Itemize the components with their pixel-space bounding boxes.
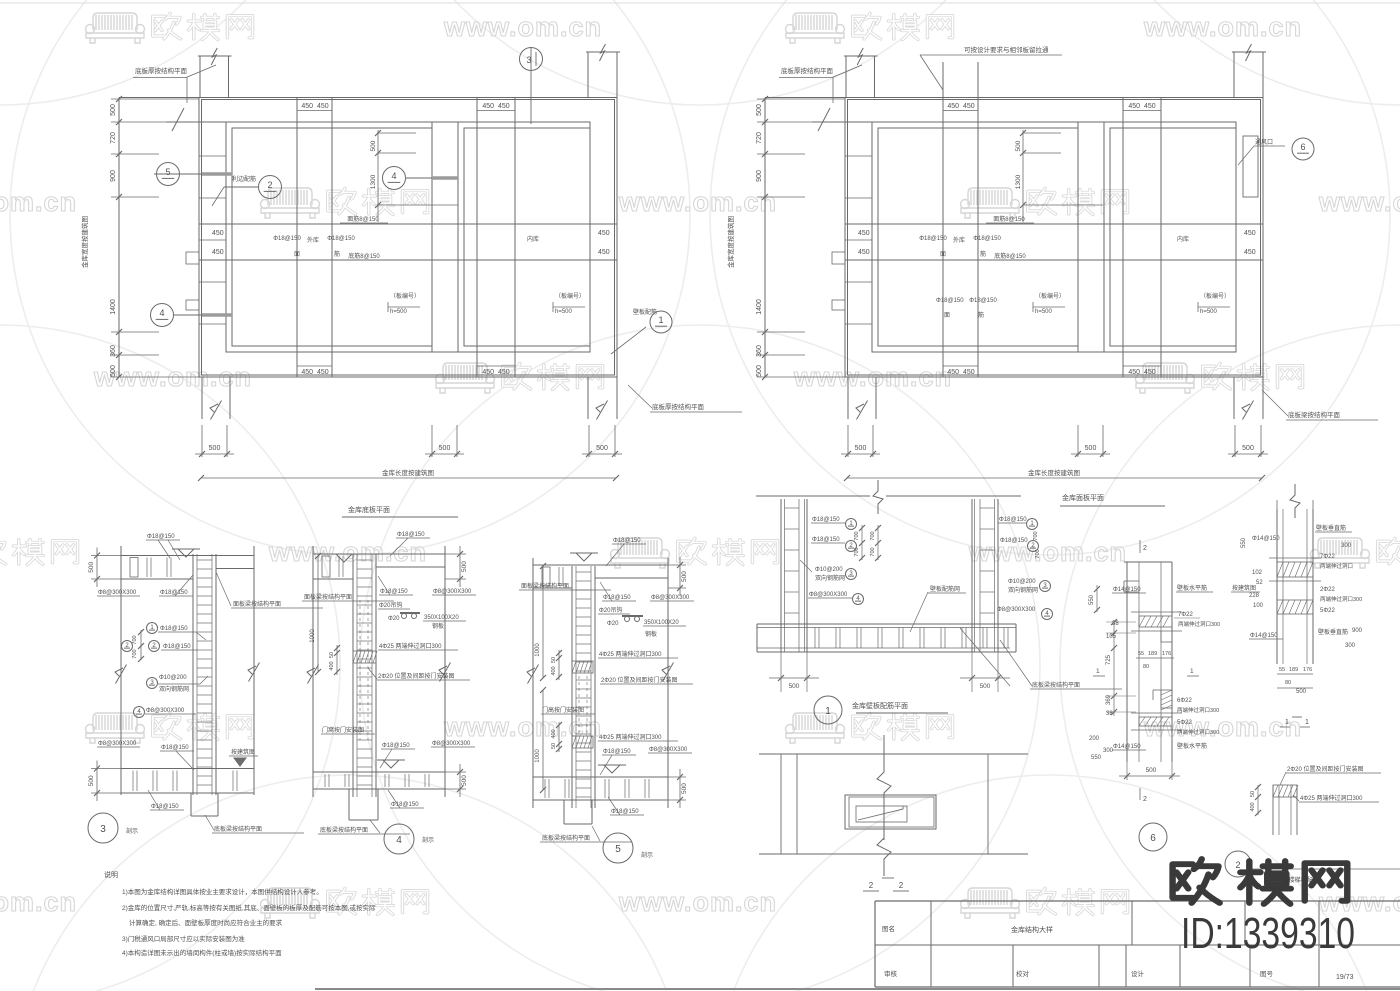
section 3 top slab: [121, 555, 254, 557]
svg-text:筋: 筋: [334, 250, 340, 258]
svg-text:金库结构大样: 金库结构大样: [1011, 925, 1053, 934]
svg-text:双向钢筋网: 双向钢筋网: [1008, 586, 1038, 594]
svg-text:壁板垂直筋: 壁板垂直筋: [1318, 628, 1348, 636]
svg-text:两端伸过洞口300: 两端伸过洞口300: [1177, 706, 1219, 714]
svg-text:底板厚按结构平面: 底板厚按结构平面: [135, 66, 188, 75]
detail 1-1 top break: [1276, 500, 1278, 509]
title block table: [875, 900, 1400, 902]
svg-text:1)本图为金库结构详图具体按业主要求设计，本图供结构设计人参: 1)本图为金库结构详图具体按业主要求设计，本图供结构设计人参考。: [122, 887, 323, 896]
svg-text:壁板水平筋: 壁板水平筋: [1177, 584, 1207, 592]
svg-text:2Φ20 位置及间距按门安装图: 2Φ20 位置及间距按门安装图: [378, 672, 454, 680]
svg-text:500: 500: [1242, 445, 1254, 452]
svg-text:Φ18@150: Φ18@150: [163, 644, 191, 650]
svg-text:400: 400: [551, 729, 557, 738]
svg-text:Φ18@150: Φ18@150: [936, 298, 964, 304]
svg-text:审核: 审核: [884, 969, 898, 978]
plan B right room wall: [1110, 128, 1236, 346]
svg-text:4: 4: [391, 171, 396, 181]
svg-text:6: 6: [1150, 833, 1156, 844]
svg-text:6: 6: [1300, 142, 1305, 152]
svg-text:面板梁按结构平面: 面板梁按结构平面: [304, 593, 352, 601]
svg-text:Φ20吊钩: Φ20吊钩: [379, 601, 402, 609]
svg-text:Φ18@150: Φ18@150: [397, 532, 425, 538]
section 3 rebar callout 4: [134, 707, 145, 718]
svg-text:450 450: 450 450: [1128, 369, 1155, 376]
svg-text:底板厚按结构平面: 底板厚按结构平面: [652, 402, 705, 411]
svg-text:设计: 设计: [1131, 969, 1145, 978]
section 3 rebar callout 1: [147, 623, 158, 634]
section 5 bottom slab: [533, 776, 668, 778]
svg-text:102: 102: [1252, 570, 1263, 576]
svg-text:Φ8@300X300: Φ8@300X300: [146, 708, 185, 714]
svg-text:筋: 筋: [978, 311, 984, 319]
section 3 break mark right: [249, 662, 260, 681]
svg-text:（板编号）: （板编号）: [555, 292, 585, 300]
svg-text:450 450: 450 450: [482, 103, 509, 110]
svg-text:100: 100: [1253, 603, 1264, 609]
svg-text:360: 360: [110, 345, 117, 357]
svg-text:2Φ20 位置及间距按门安装图: 2Φ20 位置及间距按门安装图: [1287, 765, 1363, 773]
svg-text:Φ14@150: Φ14@150: [1113, 744, 1141, 750]
svg-text:筋: 筋: [980, 250, 986, 258]
svg-text:金库壁板配筋平面: 金库壁板配筋平面: [852, 701, 908, 710]
callout circle 4 (plan A right room): [383, 167, 406, 190]
svg-text:校对: 校对: [1016, 969, 1030, 978]
svg-text:Φ18@150: Φ18@150: [160, 626, 188, 632]
svg-text:450 450: 450 450: [947, 369, 974, 376]
svg-text:外库: 外库: [307, 236, 319, 244]
detail 6 bottom dim 500: [1126, 762, 1128, 780]
svg-text:Φ18@150: Φ18@150: [151, 804, 179, 810]
svg-text:1: 1: [1285, 719, 1289, 726]
svg-text:Φ18@150: Φ18@150: [812, 517, 840, 523]
plan A middle wall: [431, 122, 433, 352]
svg-text:189: 189: [1148, 651, 1157, 657]
svg-text:www.om.cn: www.om.cn: [618, 187, 777, 217]
plan A interior dimension 500/1300: [377, 130, 379, 222]
svg-text:7Φ22: 7Φ22: [1320, 554, 1335, 560]
svg-text:450: 450: [858, 249, 870, 256]
detail 1-1 wall verticals: [1276, 509, 1278, 664]
plan A top wall stubs: [119, 97, 199, 99]
plan B overall length dimension: [847, 477, 1262, 479]
svg-text:底筋8@150: 底筋8@150: [994, 252, 1026, 260]
svg-text:900: 900: [110, 170, 117, 182]
svg-text:52: 52: [1256, 580, 1263, 586]
svg-text:500: 500: [1146, 767, 1157, 774]
svg-text:2Φ22: 2Φ22: [1320, 587, 1335, 593]
svg-text:Φ8@300X300: Φ8@300X300: [433, 589, 472, 595]
plan B outer wall: [845, 98, 1263, 378]
svg-text:利边配筋: 利边配筋: [232, 175, 256, 183]
svg-text:450: 450: [1244, 249, 1256, 256]
U-section left wall: [780, 499, 782, 652]
section 4 slab dimensions 500: [445, 553, 466, 555]
svg-text:500: 500: [88, 561, 95, 572]
svg-text:双向钢筋网: 双向钢筋网: [159, 685, 189, 693]
plan A bottom dimensions 500: [195, 453, 234, 455]
svg-text:300: 300: [1341, 543, 1352, 549]
svg-text:1000: 1000: [310, 629, 316, 643]
svg-text:450: 450: [598, 249, 610, 256]
section 3 rebar callout 3: [147, 678, 158, 689]
svg-text:500: 500: [855, 445, 867, 452]
svg-text:350X100X20: 350X100X20: [644, 620, 679, 626]
plan B mid reinforcement band: [845, 223, 1263, 225]
svg-text:Φ18@150: Φ18@150: [391, 802, 419, 808]
svg-text:500: 500: [789, 683, 800, 690]
section 4 break mark left: [308, 664, 319, 683]
elevation 2-2 break lines: [877, 735, 891, 840]
svg-text:2Φ20 位置及间距按门安装图: 2Φ20 位置及间距按门安装图: [601, 676, 677, 684]
svg-text:Φ18@150: Φ18@150: [812, 537, 840, 543]
section 4 footing: [348, 789, 350, 820]
callout circle 3 (plan A top): [520, 48, 543, 71]
svg-text:500: 500: [209, 445, 221, 452]
svg-text:500: 500: [1085, 445, 1097, 452]
svg-text:550: 550: [1089, 594, 1095, 605]
note line above title block: [1251, 868, 1400, 870]
svg-text:Φ8@300X300: Φ8@300X300: [432, 741, 471, 747]
elevation 2-2 door box: [845, 795, 936, 829]
elevation 2-2 wall: [759, 753, 1028, 755]
svg-text:4Φ25 两端伸过洞口300: 4Φ25 两端伸过洞口300: [599, 733, 662, 741]
svg-text:底板梁按结构平面: 底板梁按结构平面: [320, 826, 368, 834]
section 4 slab level marks: [336, 554, 352, 562]
svg-text:www.om.cn: www.om.cn: [618, 887, 777, 917]
svg-text:900: 900: [1352, 628, 1363, 634]
svg-text:1400: 1400: [110, 299, 117, 315]
svg-text:Φ8@300X300: Φ8@300X300: [98, 741, 137, 747]
svg-text:1300: 1300: [370, 174, 377, 189]
elevation 2-2 door leaf: [856, 806, 907, 822]
svg-text:www.om.cn: www.om.cn: [1143, 712, 1302, 742]
svg-text:500: 500: [1015, 140, 1022, 151]
svg-text:Φ18@150: Φ18@150: [613, 538, 641, 544]
svg-text:500: 500: [461, 561, 468, 572]
section 4 break mark right: [440, 662, 451, 681]
svg-text:Φ10@200: Φ10@200: [1008, 579, 1036, 585]
detail 6 bubble: [1139, 823, 1167, 851]
section 4 hook drawing: [400, 612, 420, 614]
svg-text:550: 550: [1241, 537, 1247, 548]
svg-text:1: 1: [658, 315, 663, 325]
vent 通风口 + callout circle 6: [1243, 136, 1258, 197]
svg-text:3)门税通风口局部尺寸应以实际安装图为准: 3)门税通风口局部尺寸应以实际安装图为准: [122, 934, 245, 943]
section 5 break mark right: [663, 662, 674, 681]
section 4 wall: [352, 554, 354, 797]
section 5 footing: [563, 800, 565, 824]
svg-text:按建筑图: 按建筑图: [1232, 584, 1256, 592]
svg-text:金库宽度按建筑图: 金库宽度按建筑图: [80, 216, 89, 268]
svg-text:Φ20吊钩: Φ20吊钩: [599, 606, 622, 614]
svg-text:500: 500: [596, 445, 608, 452]
svg-text:4Φ25 两端伸过洞口300: 4Φ25 两端伸过洞口300: [599, 650, 662, 658]
callout circle 5: [157, 163, 180, 186]
svg-text:h=500: h=500: [1035, 309, 1053, 315]
svg-text:www.om.cn: www.om.cn: [443, 712, 602, 742]
svg-text:Φ18@150: Φ18@150: [382, 743, 410, 749]
plan B middle wall: [1077, 122, 1079, 352]
section 4 bottom slab: [313, 771, 445, 773]
svg-text:700: 700: [854, 531, 860, 540]
svg-text:3: 3: [100, 824, 106, 835]
section 3 left boundary line: [120, 546, 122, 795]
svg-text:2: 2: [1143, 545, 1147, 552]
svg-text:700: 700: [870, 547, 876, 556]
svg-text:4: 4: [159, 308, 164, 318]
svg-text:面: 面: [944, 312, 950, 319]
svg-text:450: 450: [858, 230, 870, 237]
svg-text:Φ14@150: Φ14@150: [1250, 633, 1278, 639]
svg-text:计算确定, 确定后、面壁板厚度时尚应符合业主的要求: 计算确定, 确定后、面壁板厚度时尚应符合业主的要求: [129, 918, 283, 927]
plan A left room wall: [232, 128, 432, 346]
svg-text:Φ8@300X300: Φ8@300X300: [809, 592, 848, 598]
section 4 left boundary line: [312, 546, 314, 797]
svg-text:400: 400: [1250, 802, 1256, 811]
svg-text:（板编号）: （板编号）: [390, 292, 420, 300]
svg-text:500: 500: [681, 571, 688, 582]
svg-text:55: 55: [1279, 667, 1285, 673]
svg-text:图号: 图号: [1260, 970, 1274, 978]
U-section bottom dims 500: [780, 652, 782, 692]
svg-text:550: 550: [1091, 755, 1102, 761]
svg-text:钢板: 钢板: [432, 622, 444, 630]
section 3 bubble: [88, 813, 118, 843]
section 4 right boundary line: [444, 546, 446, 797]
callout circle 4 (plan A left): [151, 304, 174, 327]
section 3 footing: [190, 793, 192, 816]
detail 1-1 hatch band 1: [1277, 562, 1313, 577]
plan B top right extension: [1233, 52, 1235, 98]
svg-text:1: 1: [1096, 668, 1100, 675]
svg-text:5Φ22: 5Φ22: [1177, 720, 1192, 726]
svg-text:1: 1: [1190, 668, 1194, 675]
svg-text:228: 228: [1249, 593, 1260, 599]
svg-text:1: 1: [1305, 719, 1309, 726]
svg-text:2: 2: [1235, 860, 1240, 870]
svg-text:Φ18@150: Φ18@150: [273, 236, 301, 242]
svg-text:720: 720: [110, 132, 117, 144]
detail 6 middle hatch opening 6&#934;22: [1161, 690, 1172, 708]
plan A top left corner extension: [199, 56, 201, 98]
lintel dims 400 50: [1257, 785, 1259, 815]
svg-text:Φ8@300X300: Φ8@300X300: [98, 590, 137, 596]
svg-text:www.om.cn: www.om.cn: [0, 187, 77, 217]
svg-text:底板厚按结构平面: 底板厚按结构平面: [781, 66, 834, 75]
lintel detail verticals: [1272, 785, 1274, 835]
section 5 hook drawing: [622, 615, 643, 617]
svg-text:Φ20: Φ20: [388, 616, 400, 622]
plan A mid reinforcement band: [199, 223, 617, 225]
svg-text:5: 5: [165, 167, 170, 177]
svg-text:Φ18@150: Φ18@150: [160, 590, 188, 596]
svg-text:（板编号）: （板编号）: [1200, 292, 1230, 300]
svg-text:内库: 内库: [1177, 235, 1189, 243]
svg-text:Φ18@150: Φ18@150: [147, 534, 175, 540]
section 3 slab dimensions 500: [91, 555, 121, 557]
svg-text:350X100X20: 350X100X20: [424, 615, 459, 621]
svg-text:500: 500: [370, 140, 377, 151]
svg-text:50: 50: [1250, 791, 1256, 797]
section 5 break mark left: [528, 664, 539, 683]
svg-text:www.om.cn: www.om.cn: [0, 887, 77, 917]
svg-text:说明: 说明: [104, 870, 118, 879]
svg-text:725: 725: [1106, 654, 1112, 665]
svg-text:369: 369: [1106, 694, 1112, 705]
section 3 break mark left: [116, 664, 127, 683]
section 5 dim 1000 lower: [542, 690, 544, 790]
section 3 bottom slab: [121, 768, 254, 770]
svg-text:400: 400: [329, 661, 335, 670]
svg-text:500: 500: [110, 104, 117, 116]
svg-text:700: 700: [1035, 549, 1041, 558]
plan B left dimension chain: [764, 98, 766, 378]
svg-text:400: 400: [551, 666, 557, 675]
callout circle 2: [259, 176, 282, 199]
section 5 wall: [571, 566, 573, 808]
section 4 bubble: [384, 824, 414, 854]
svg-text:200: 200: [1089, 736, 1100, 742]
lintel detail hatch: [1273, 785, 1297, 797]
svg-text:面筋8@150: 面筋8@150: [993, 215, 1025, 223]
elevation 2-2 verticals: [780, 754, 782, 854]
svg-text:500: 500: [439, 445, 451, 452]
svg-text:金库底板平面: 金库底板平面: [348, 505, 390, 514]
svg-text:700: 700: [1033, 531, 1039, 540]
svg-text:450 450: 450 450: [947, 103, 974, 110]
svg-text:www.om.cn: www.om.cn: [1143, 12, 1302, 42]
svg-text:55: 55: [1138, 651, 1144, 657]
svg-text:450 450: 450 450: [1128, 103, 1155, 110]
svg-text:2: 2: [1143, 796, 1147, 803]
svg-text:500: 500: [980, 683, 991, 690]
svg-text:h=500: h=500: [555, 309, 573, 315]
svg-text:www.om.cn: www.om.cn: [268, 537, 427, 567]
section 5 top slab: [533, 564, 668, 566]
svg-text:450 450: 450 450: [301, 369, 328, 376]
U-section right wall: [971, 499, 973, 652]
svg-text:按建筑图: 按建筑图: [231, 748, 255, 756]
svg-text:Φ8@300X300: Φ8@300X300: [997, 607, 1036, 613]
section 5 slab level marks: [576, 553, 592, 561]
svg-text:双向钢筋网: 双向钢筋网: [815, 574, 845, 582]
detail 1-1 hatch band 2: [1277, 600, 1313, 614]
plan A column strip 1: [296, 98, 298, 378]
svg-text:金库面板平面: 金库面板平面: [1062, 493, 1104, 502]
svg-text:500: 500: [88, 775, 95, 786]
svg-text:500: 500: [461, 775, 468, 786]
svg-text:4: 4: [396, 835, 402, 846]
svg-text:Φ14@150: Φ14@150: [1113, 587, 1141, 593]
plan A right room wall: [464, 128, 590, 346]
svg-text:Φ14@150: Φ14@150: [1252, 536, 1280, 542]
svg-text:700: 700: [132, 649, 138, 658]
detail 6 wall verticals: [1126, 562, 1128, 762]
svg-text:底板梁按结构平面: 底板梁按结构平面: [542, 834, 590, 842]
svg-text:500: 500: [756, 365, 763, 377]
svg-text:2: 2: [869, 881, 874, 890]
section 4 door dashed lines: [359, 600, 361, 740]
svg-text:壁板垂直筋: 壁板垂直筋: [1316, 524, 1346, 532]
svg-text:Φ8@300X300: Φ8@300X300: [651, 595, 690, 601]
detail 6 top hatch opening 7#934;22: [1139, 616, 1172, 627]
svg-text:5: 5: [615, 844, 621, 855]
plan B column strip 1: [942, 98, 944, 378]
svg-text:500: 500: [110, 365, 117, 377]
svg-text:通风口: 通风口: [1255, 138, 1273, 146]
svg-text:50: 50: [551, 657, 557, 663]
svg-text:1: 1: [825, 706, 831, 717]
plan A wall pilasters: [186, 252, 199, 264]
svg-text:6Φ22: 6Φ22: [1177, 698, 1192, 704]
svg-text:4)本构造详图未示出的墙闵构件(柱或墙)按实际结构平面: 4)本构造详图未示出的墙闵构件(柱或墙)按实际结构平面: [122, 948, 282, 957]
section 4 dim 1000: [317, 556, 319, 672]
svg-text:面板梁按结构平面: 面板梁按结构平面: [233, 600, 281, 608]
detail 6 top cap: [1124, 561, 1172, 563]
svg-text:Φ18@150: Φ18@150: [1000, 538, 1028, 544]
section 5 bubble: [603, 833, 633, 863]
site logo 欧模网: [1173, 859, 1220, 903]
svg-text:Φ18@150: Φ18@150: [973, 236, 1001, 242]
plan A left dimension chain: [118, 98, 120, 378]
svg-text:Φ18@150: Φ18@150: [603, 595, 631, 601]
svg-text:4Φ25 两端伸过洞口300: 4Φ25 两端伸过洞口300: [379, 642, 442, 650]
svg-text:Φ18@150: Φ18@150: [611, 809, 639, 815]
svg-text:4Φ25 两端伸过洞口300: 4Φ25 两端伸过洞口300: [1300, 794, 1363, 802]
svg-text:壁板配筋: 壁板配筋: [633, 308, 657, 316]
plan B bottom dimensions 500: [841, 453, 880, 455]
plan B top wall stubs: [765, 97, 845, 99]
svg-text:5Φ22: 5Φ22: [1320, 608, 1335, 614]
sheet frame lines: [0, 2, 1400, 4]
plan A column strip 2: [476, 98, 478, 378]
svg-text:剖示: 剖示: [126, 827, 138, 835]
plan A left wall rungs: [199, 155, 226, 157]
U-section bottom slab: [757, 623, 1016, 625]
svg-text:19/73: 19/73: [1336, 974, 1354, 981]
section 4 dim 50 400: [336, 645, 338, 675]
svg-text:Φ10@200: Φ10@200: [815, 567, 843, 573]
svg-text:450: 450: [212, 249, 224, 256]
svg-text:50: 50: [551, 743, 557, 749]
svg-text:7Φ22: 7Φ22: [1178, 612, 1193, 618]
svg-text:2: 2: [267, 180, 272, 190]
section 4 door anchor hatch: [353, 651, 376, 663]
svg-text:80: 80: [1143, 664, 1149, 670]
svg-text:内库: 内库: [527, 235, 539, 243]
plan B left wall rungs: [845, 155, 872, 157]
svg-text:500: 500: [1296, 689, 1307, 695]
U-section bubble 1 + title 金库壁板配筋平面: [814, 696, 842, 724]
svg-text:www.om.cn: www.om.cn: [968, 537, 1127, 567]
svg-text:450: 450: [212, 230, 224, 237]
svg-text:图名: 图名: [882, 924, 895, 933]
svg-text:底板梁按结构平面: 底板梁按结构平面: [214, 825, 262, 833]
svg-text:1400: 1400: [756, 299, 763, 315]
svg-text:2)金库的位置尺寸,严轨,标高等按有关图纸,其底、面壁板的板: 2)金库的位置尺寸,严轨,标高等按有关图纸,其底、面壁板的板厚及配筋可按本图,或…: [122, 903, 376, 912]
svg-text:700: 700: [132, 635, 138, 644]
svg-text:钢板: 钢板: [645, 630, 657, 638]
svg-text:外库: 外库: [953, 236, 965, 244]
svg-text:450: 450: [1244, 230, 1256, 237]
svg-text:Φ18@150: Φ18@150: [919, 236, 947, 242]
svg-text:（板编号）: （板编号）: [1035, 292, 1065, 300]
plan B strip extension + note 可按设计要求与相邻板留拉通: [942, 62, 944, 98]
svg-text:面: 面: [294, 251, 300, 258]
section 5 door dashed lines: [578, 676, 580, 733]
plan B top left corner extension: [845, 56, 847, 98]
